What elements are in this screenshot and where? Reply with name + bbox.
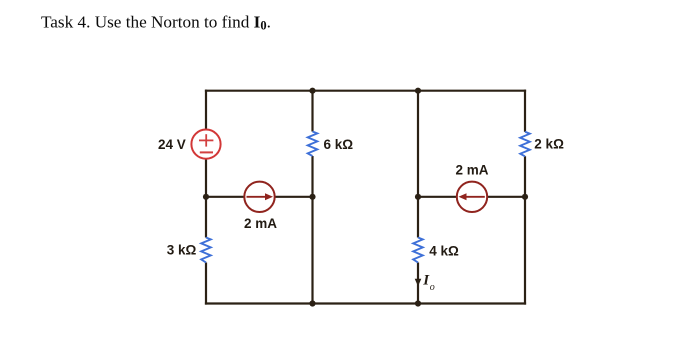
svg-text:2 kΩ: 2 kΩ <box>534 137 564 152</box>
wire middle-right horizontal left of 2mA source <box>418 196 457 198</box>
wire right branch below 2k resistor <box>524 156 526 304</box>
current source I1 2mA circle (arrow right) <box>244 182 274 212</box>
node junction bottom 4k <box>415 300 421 306</box>
svg-text:4 kΩ: 4 kΩ <box>429 243 459 258</box>
wire left branch below 3k resistor <box>205 263 207 305</box>
wire top horizontal <box>205 90 526 92</box>
node junction mid 4k <box>415 194 421 200</box>
resistor 6k zigzag <box>308 132 318 157</box>
svg-text:2 mA: 2 mA <box>244 216 277 231</box>
current source I2 arrow <box>459 193 485 200</box>
wire 4k branch top to middle node <box>417 90 419 238</box>
node junction bottom 6k <box>309 300 315 306</box>
resistor 3k zigzag <box>201 238 211 263</box>
wire middle-left horizontal left of 2mA source <box>206 196 245 198</box>
svg-text:2 mA: 2 mA <box>455 162 488 177</box>
svg-text:Task 4. Use the Norton to find: Task 4. Use the Norton to find I0. <box>41 13 271 33</box>
resistor 4k zigzag <box>413 238 423 263</box>
voltage source V1 24V circle <box>191 130 220 159</box>
node junction top 6k <box>309 88 315 94</box>
label Io <box>422 273 435 294</box>
voltage source plus sign <box>199 134 213 146</box>
wire 4k branch below resistor with Io <box>417 263 419 305</box>
wire bottom horizontal <box>205 302 526 304</box>
node junction mid right <box>522 194 528 200</box>
node junction mid left <box>203 194 209 200</box>
resistor 2k zigzag <box>520 132 530 157</box>
voltage source minus sign <box>200 151 213 153</box>
current source I2 2mA circle (arrow left) <box>457 182 487 212</box>
node junction mid 6k <box>309 194 315 200</box>
current source I1 arrow <box>247 193 274 200</box>
Io arrow on 4k branch <box>415 279 422 286</box>
svg-text:o: o <box>430 282 435 293</box>
svg-text:24 V: 24 V <box>158 137 186 152</box>
wire middle branch below 6k resistor <box>311 156 313 305</box>
wire middle-right horizontal right of 2mA source <box>487 196 525 198</box>
svg-text:6 kΩ: 6 kΩ <box>324 137 354 152</box>
wire middle branch above 6k resistor <box>311 90 313 132</box>
node junction top 4k <box>415 88 421 94</box>
wire left branch source to 3k resistor <box>205 158 207 237</box>
wire middle-left horizontal right of 2mA source <box>275 196 313 198</box>
svg-text:3 kΩ: 3 kΩ <box>167 243 197 258</box>
wire left branch above 24V source <box>205 90 207 130</box>
wire right branch above 2k resistor <box>524 90 526 132</box>
